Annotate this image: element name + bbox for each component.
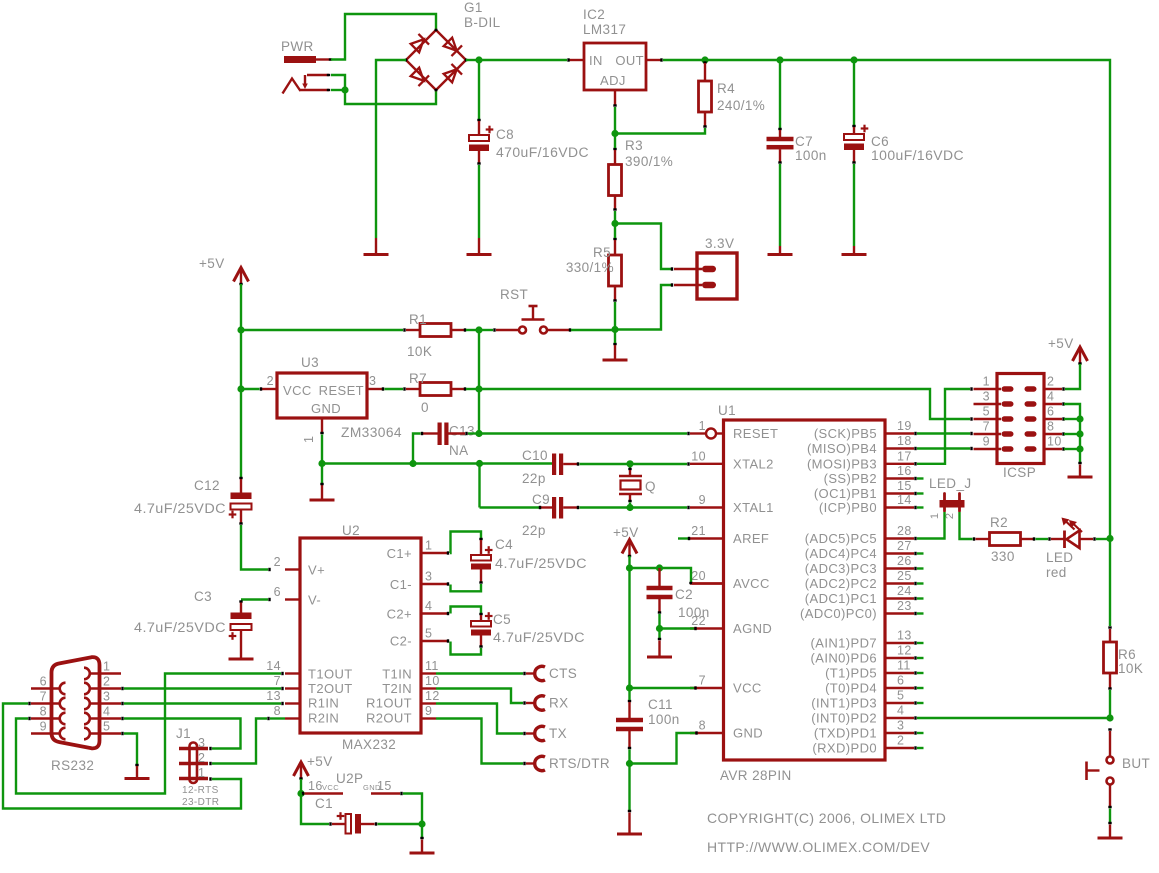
wire U3 RESET to R7 bbox=[385, 388, 404, 390]
svg-text:C13: C13 bbox=[449, 424, 475, 439]
capacitor C5 (polarized) plates bbox=[471, 612, 493, 635]
svg-text:C11: C11 bbox=[648, 697, 673, 712]
ICSP pin 1 number bbox=[983, 375, 990, 389]
wire T1IN to CTS port bbox=[436, 672, 523, 674]
DB9 pin 7 number bbox=[40, 690, 47, 704]
wire +5V to R1 bbox=[241, 329, 403, 331]
wire gnd node to U1 GND pin bbox=[630, 733, 696, 764]
ICSP pin 3 stub bbox=[1002, 401, 1014, 406]
capacitor C8 bottom lead bbox=[477, 151, 480, 164]
junction C7 top bbox=[776, 56, 783, 63]
svg-text:1: 1 bbox=[103, 660, 110, 674]
svg-text:10: 10 bbox=[1047, 435, 1062, 449]
junction crystal bottom / XTAL1 bbox=[626, 504, 633, 511]
pin tick C11 top bbox=[628, 700, 631, 702]
U1 pin 25 (ADC2)PC2 lead bbox=[885, 582, 916, 585]
svg-text:12: 12 bbox=[425, 689, 440, 703]
wire R4 bottom to ADJ node bbox=[617, 128, 705, 134]
svg-text:2: 2 bbox=[1047, 375, 1054, 389]
svg-text:(T1)PD5: (T1)PD5 bbox=[825, 666, 877, 681]
wire C13 left to ground rail bbox=[413, 434, 421, 464]
U2 left pin 8 lead bbox=[285, 717, 300, 719]
label C2 bbox=[675, 587, 693, 602]
capacitor C4 bottom lead bbox=[479, 570, 482, 583]
U1 AREF stub wire bbox=[678, 537, 689, 540]
svg-text:5: 5 bbox=[983, 405, 990, 419]
J1 pin 2 lead bbox=[179, 762, 208, 765]
svg-text:RX: RX bbox=[549, 696, 569, 711]
wire J1 pin2 to U2 R2IN bbox=[212, 719, 267, 764]
label C10 bbox=[522, 448, 548, 463]
resistor R1 body bbox=[420, 324, 451, 337]
svg-text:9: 9 bbox=[699, 493, 706, 507]
U2P pin16 number bbox=[308, 779, 339, 793]
svg-text:2: 2 bbox=[103, 675, 110, 689]
svg-text:5: 5 bbox=[425, 627, 432, 641]
label J1 bbox=[176, 726, 191, 741]
pin tick AVCC corner bbox=[689, 582, 692, 584]
jumper LED_J pin numbers bbox=[929, 513, 956, 519]
svg-text:(ADC0)PC0): (ADC0)PC0) bbox=[800, 606, 877, 621]
label R3 value bbox=[625, 154, 673, 169]
pin tick C5 top bbox=[479, 613, 482, 615]
U2P pin 15 GND lead bbox=[371, 792, 402, 795]
junction PWR- node bbox=[341, 86, 348, 93]
label +5V AVCC bbox=[613, 525, 639, 540]
wire PWR- to bridge AC2 bbox=[345, 90, 436, 104]
svg-text:VCC: VCC bbox=[283, 383, 312, 398]
svg-text:4.7uF/25VDC: 4.7uF/25VDC bbox=[495, 556, 587, 571]
svg-text:14: 14 bbox=[266, 659, 281, 673]
U2 pin 10 number bbox=[425, 674, 440, 688]
svg-text:C1-: C1- bbox=[390, 577, 412, 592]
svg-text:3: 3 bbox=[983, 390, 990, 404]
label C7 bbox=[795, 134, 813, 149]
svg-text:OUT: OUT bbox=[615, 53, 644, 68]
svg-text:Q: Q bbox=[645, 479, 656, 494]
capacitor C9 right lead bbox=[563, 506, 578, 509]
bridge corner pin marks bbox=[406, 30, 466, 90]
svg-text:MAX232: MAX232 bbox=[342, 737, 396, 752]
wire DB9 pin4 to J1 pin3 bbox=[124, 719, 241, 749]
ICSP pin 2 stub bbox=[1025, 386, 1037, 391]
ICSP pin 1 stub bbox=[1002, 386, 1014, 391]
IC IC2 LM317 body bbox=[584, 43, 646, 90]
RX port lead bbox=[526, 702, 536, 704]
pin tick R1 left bbox=[403, 328, 405, 331]
wire ADJ node to R3 bbox=[614, 134, 616, 149]
U1 XTAL2 pin lead bbox=[690, 463, 724, 465]
capacitor C5 bottom lead bbox=[479, 636, 482, 647]
wire PB5 SCK to ICSP pin7 bbox=[917, 432, 970, 434]
resistor R2 body bbox=[990, 533, 1021, 546]
ICSP pin 9 stub bbox=[1002, 446, 1014, 451]
U1 pin 13 (AIN1)PD7 lead bbox=[885, 641, 916, 644]
label C12 bbox=[194, 478, 220, 493]
label R6 bbox=[1118, 647, 1136, 662]
svg-text:100uF/16VDC: 100uF/16VDC bbox=[871, 148, 964, 163]
label U2P bbox=[336, 771, 363, 786]
svg-text:390/1%: 390/1% bbox=[625, 154, 673, 169]
pin tick C8 top bbox=[477, 119, 480, 121]
label C9 value bbox=[522, 523, 546, 538]
svg-text:U1: U1 bbox=[718, 403, 736, 418]
wire IC2 OUT to rail bbox=[663, 59, 703, 61]
wire pin16 to C1 bbox=[301, 794, 329, 825]
svg-text:C7: C7 bbox=[795, 134, 813, 149]
svg-text:15: 15 bbox=[897, 479, 912, 493]
resistor R2 left lead bbox=[976, 538, 990, 540]
junction C13/RESET node bbox=[475, 430, 482, 437]
svg-text:LED_J: LED_J bbox=[929, 476, 972, 491]
ICSP pin 4 number bbox=[1047, 390, 1054, 404]
capacitor C4 (polarized) plates bbox=[471, 546, 493, 569]
ICSP pin 3 number bbox=[983, 390, 990, 404]
junction AGND node bbox=[656, 625, 663, 632]
pin tick ICSP pin1 bbox=[970, 387, 972, 390]
pin tick J1 pin2 bbox=[209, 762, 211, 765]
junction LED / +5V rail bbox=[1106, 535, 1113, 542]
wire to C9 bbox=[480, 506, 540, 508]
U1 GND pin lead bbox=[690, 732, 724, 734]
svg-text:(ADC1)PC1: (ADC1)PC1 bbox=[805, 591, 877, 606]
U2 left pin 7 lead bbox=[285, 687, 300, 689]
DB9 contact pin 7 bbox=[60, 698, 66, 710]
pin tick C4 top bbox=[479, 538, 482, 540]
label LED red bbox=[1046, 565, 1067, 580]
U2 pin 12 number bbox=[425, 689, 440, 703]
junction R1 row bbox=[237, 326, 244, 333]
U1 AVCC pin lead horizontal bbox=[692, 582, 724, 584]
svg-text:7: 7 bbox=[699, 674, 706, 688]
svg-text:10K: 10K bbox=[407, 344, 432, 359]
wire +5V down to VCC row bbox=[628, 568, 630, 688]
label R3 bbox=[625, 138, 643, 153]
svg-text:RESET: RESET bbox=[319, 383, 364, 398]
U2 pin 8 number bbox=[274, 704, 281, 718]
capacitor C11 bottom lead bbox=[628, 731, 631, 748]
resistor R4 top lead bbox=[704, 63, 706, 81]
svg-text:4.7uF/25VDC: 4.7uF/25VDC bbox=[493, 630, 585, 645]
wire to C2 node bbox=[630, 567, 658, 569]
resistor R1 left lead bbox=[406, 329, 420, 331]
wire ICSP pin10 to chain bbox=[1064, 448, 1080, 450]
svg-text:3: 3 bbox=[198, 736, 205, 750]
svg-text:R5: R5 bbox=[593, 245, 611, 260]
crystal Q top lead bbox=[628, 464, 631, 476]
pin tick U1 XTAL2 bbox=[687, 462, 689, 465]
U1 pin 6 (T0)PD4 lead bbox=[885, 686, 916, 689]
wire into R2IN bbox=[270, 717, 285, 719]
label C4 value bbox=[495, 556, 587, 571]
svg-text:1: 1 bbox=[425, 539, 432, 553]
svg-text:(AIN1)PD7: (AIN1)PD7 bbox=[811, 636, 877, 651]
wire to U1 XTAL1 pin bbox=[630, 506, 687, 508]
label IC2 bbox=[583, 7, 605, 22]
svg-text:C2-: C2- bbox=[390, 634, 412, 649]
svg-text:XTAL2: XTAL2 bbox=[733, 456, 774, 471]
ICSP pin 6 stub bbox=[1025, 416, 1037, 421]
svg-text:T2IN: T2IN bbox=[382, 681, 412, 696]
wire pin1 to C4 plus bbox=[450, 532, 481, 554]
svg-text:21: 21 bbox=[691, 524, 706, 538]
svg-text:2: 2 bbox=[897, 734, 904, 748]
resistor R4 bottom lead bbox=[703, 112, 706, 127]
U2P pin 16 VCC lead bbox=[303, 792, 343, 795]
J1 pin 3 lead bbox=[179, 747, 208, 750]
label R4 value bbox=[717, 98, 765, 113]
capacitor C5 top lead bbox=[480, 615, 482, 621]
DB9 pin 6 number bbox=[40, 675, 47, 689]
wire R7 node to ICSP pin5 bbox=[479, 389, 970, 419]
resistor R5 body bbox=[609, 255, 622, 286]
wire R7 to node bbox=[466, 388, 479, 390]
svg-text:17: 17 bbox=[897, 449, 912, 463]
svg-text:R4: R4 bbox=[717, 81, 735, 96]
capacitor C11 100n bbox=[616, 718, 643, 732]
U1 pin 14 (ICP)PB0 lead bbox=[885, 506, 916, 509]
capacitor C13 right lead bbox=[449, 432, 467, 435]
DB9 contact pin 2 bbox=[84, 683, 90, 695]
svg-text:C2: C2 bbox=[675, 587, 693, 602]
DB9 pin 1 number bbox=[103, 660, 110, 674]
svg-text:(T0)PD4: (T0)PD4 bbox=[825, 681, 877, 696]
resistor R4 body bbox=[699, 81, 712, 112]
label Q bbox=[645, 479, 656, 494]
svg-text:6: 6 bbox=[1047, 405, 1054, 419]
pin tick C1 left bbox=[329, 822, 331, 825]
pin tick VCC bbox=[694, 686, 696, 689]
U2 pin 1 number bbox=[425, 539, 432, 553]
wire gnd node down bbox=[628, 764, 630, 811]
svg-text:330: 330 bbox=[991, 549, 1015, 564]
svg-text:(RXD)PD0: (RXD)PD0 bbox=[812, 741, 877, 756]
resistor R5 top lead bbox=[614, 240, 616, 255]
wire BUT node to U1 PD2 bbox=[917, 717, 1110, 719]
svg-text:1: 1 bbox=[198, 766, 205, 780]
stub wire pin 11 bbox=[917, 672, 924, 674]
U1 pin 18 (MISO)PB4 lead bbox=[885, 447, 916, 450]
label ICSP bbox=[1003, 465, 1036, 480]
U2 pin 9 number bbox=[425, 704, 432, 718]
label C13 bbox=[449, 424, 475, 439]
svg-text:14: 14 bbox=[897, 493, 912, 507]
ground under C11 bbox=[617, 813, 642, 835]
svg-text:(ADC3)PC3: (ADC3)PC3 bbox=[805, 561, 877, 576]
wire rail segment bbox=[780, 59, 852, 61]
ICSP pin 3 lead bbox=[974, 403, 1002, 405]
U1 pin 12 (AIN0)PD6 lead bbox=[885, 656, 916, 659]
connector ICSP body bbox=[997, 374, 1044, 464]
label C6 value bbox=[871, 148, 964, 163]
pin tick R7 left bbox=[403, 387, 405, 390]
svg-text:C9: C9 bbox=[532, 492, 550, 507]
ICSP pin 4 lead bbox=[1044, 403, 1062, 405]
svg-text:R7: R7 bbox=[409, 371, 427, 386]
wire +5V to U2P pin16 bbox=[300, 779, 302, 794]
capacitor C12 (polarized 4.7uF) plates bbox=[229, 493, 252, 519]
RTS/DTR port lead bbox=[526, 762, 536, 764]
label C4 bbox=[495, 537, 513, 552]
label R7 bbox=[409, 371, 427, 386]
svg-text:RS232: RS232 bbox=[51, 758, 94, 773]
stub wire pin 25 bbox=[917, 582, 924, 584]
svg-text:C4: C4 bbox=[495, 537, 513, 552]
svg-text:(MOSI)PB3: (MOSI)PB3 bbox=[807, 456, 877, 471]
resistor R6 bottom lead bbox=[1108, 673, 1111, 689]
junction RST node bbox=[475, 326, 482, 333]
label R5 bbox=[593, 245, 611, 260]
connector PWR pin 2/3 (barrel jack sleeve + switch) bbox=[283, 75, 331, 94]
wire C5 to pin5 bbox=[451, 642, 482, 655]
U2 right pin 10 lead bbox=[421, 687, 436, 689]
pin tick RTS/DTR bbox=[523, 762, 525, 765]
wire LED_J pin2 to R2 bbox=[960, 512, 973, 539]
label C7 value bbox=[795, 148, 827, 163]
ICSP pin 9 lead bbox=[974, 448, 1002, 450]
U1 pin 24 (ADC1)PC1 lead bbox=[885, 597, 916, 600]
svg-text:T1OUT: T1OUT bbox=[308, 667, 353, 682]
label 3.3V bbox=[705, 236, 734, 251]
pin tick U1 XTAL1 bbox=[687, 506, 689, 509]
label C12 value bbox=[134, 501, 226, 516]
pin tick DB9 pin7 bbox=[28, 702, 30, 705]
DB9 contact pin 1 bbox=[84, 668, 90, 680]
label C5 value bbox=[493, 630, 585, 645]
svg-text:T2OUT: T2OUT bbox=[308, 681, 353, 696]
U2 right pin 9 lead bbox=[421, 717, 436, 719]
svg-text:(OC1)PB1: (OC1)PB1 bbox=[814, 486, 877, 501]
DB9 contact pin 3 bbox=[84, 698, 90, 710]
pin tick U1 GND bbox=[695, 731, 697, 734]
ICSP pin 5 lead bbox=[974, 418, 1002, 420]
DB9 pin 3 lead bbox=[90, 702, 121, 704]
wire rail to C7 bbox=[779, 60, 781, 128]
ground under U2P bbox=[410, 840, 435, 854]
pin tick LED left bbox=[1048, 537, 1050, 540]
+5V supply symbol U2P bbox=[294, 762, 309, 779]
capacitor C10 plates bbox=[552, 454, 563, 476]
wire bridge minus to ground bbox=[376, 60, 406, 238]
capacitor C4 top lead bbox=[480, 540, 482, 555]
svg-text:T1IN: T1IN bbox=[382, 667, 412, 682]
wire to IC2 IN bbox=[479, 59, 567, 61]
svg-text:R1IN: R1IN bbox=[308, 696, 339, 711]
ICSP pin 9 number bbox=[983, 435, 990, 449]
junction U3 GND / rail bbox=[318, 460, 325, 467]
capacitor C10 right lead bbox=[563, 462, 578, 465]
svg-text:27: 27 bbox=[897, 539, 912, 553]
U1 XTAL1 pin lead bbox=[690, 506, 724, 508]
pushbutton BUT bbox=[1087, 731, 1114, 807]
J1 pin 1 lead bbox=[179, 777, 208, 780]
svg-text:ICSP: ICSP bbox=[1003, 465, 1036, 480]
svg-text:3: 3 bbox=[425, 570, 432, 584]
svg-text:U2P: U2P bbox=[336, 771, 363, 786]
label AVR 28PIN bbox=[720, 768, 792, 783]
resistor R2 right lead bbox=[1021, 537, 1035, 540]
U1 pin 28 (ADC5)PC5 lead bbox=[885, 537, 916, 540]
wire C3 to U2 V- bbox=[241, 598, 268, 600]
label LED_J bbox=[929, 476, 972, 491]
wire DB9 pin7 to J1 pin1 bbox=[3, 704, 241, 809]
svg-text:11: 11 bbox=[897, 659, 911, 673]
pin tick R4 top bbox=[703, 61, 706, 63]
pin tick R2 left bbox=[973, 537, 975, 540]
port arrow CTS bbox=[535, 666, 545, 680]
wire +5V rail to right edge down to LED bbox=[854, 60, 1110, 536]
wire C7 to ground bbox=[779, 164, 781, 246]
label C3 bbox=[194, 589, 212, 604]
stub wire pin 12 bbox=[917, 657, 924, 659]
svg-text:470uF/16VDC: 470uF/16VDC bbox=[496, 145, 589, 160]
ground under C2 bbox=[647, 641, 672, 658]
label R2 bbox=[990, 515, 1008, 530]
svg-text:15: 15 bbox=[377, 779, 392, 793]
pin tick ICSP pin2 bbox=[1062, 387, 1064, 390]
capacitor C2 bottom lead bbox=[658, 599, 661, 613]
ICSP pin 1 lead bbox=[974, 388, 1002, 390]
svg-text:R2IN: R2IN bbox=[308, 711, 339, 726]
crystal Q symbol bbox=[619, 476, 642, 494]
wire to AGND pin bbox=[660, 627, 695, 629]
label C3 value bbox=[134, 620, 226, 635]
wire C8 to ground bbox=[478, 165, 480, 238]
svg-text:4: 4 bbox=[897, 704, 904, 718]
U1 right pin names bbox=[800, 426, 877, 756]
svg-text:1: 1 bbox=[929, 513, 941, 519]
U2 pin 5 number bbox=[425, 627, 432, 641]
label U1 bbox=[718, 403, 736, 418]
ground under C7 bbox=[768, 246, 793, 255]
U2 left pin 2 lead bbox=[285, 568, 300, 570]
ground under C3 bbox=[229, 658, 254, 661]
pin tick RX bbox=[523, 701, 525, 704]
svg-text:(ADC4)PC4: (ADC4)PC4 bbox=[805, 546, 877, 561]
svg-text:4: 4 bbox=[1047, 390, 1054, 404]
svg-text:BUT: BUT bbox=[1122, 756, 1150, 771]
pin tick AGND bbox=[694, 627, 696, 630]
svg-text:AVR 28PIN: AVR 28PIN bbox=[720, 768, 792, 783]
svg-text:C1: C1 bbox=[315, 796, 333, 811]
DB9 pin 5 number bbox=[103, 720, 110, 734]
+5V supply symbol ICSP bbox=[1073, 347, 1088, 364]
svg-text:R1OUT: R1OUT bbox=[366, 696, 412, 711]
J1 pin 3 number bbox=[198, 736, 205, 750]
capacitor C13 left lead bbox=[422, 432, 438, 435]
rail-to-ground stub wire bbox=[320, 464, 323, 485]
wire R2 to LED bbox=[1036, 538, 1049, 540]
stub wire pin 14 bbox=[917, 506, 924, 508]
svg-text:28: 28 bbox=[897, 524, 912, 538]
capacitor C7 100n bbox=[767, 137, 794, 150]
U2P pin15 number bbox=[363, 779, 392, 793]
svg-text:PWR: PWR bbox=[281, 39, 314, 54]
svg-text:NA: NA bbox=[449, 443, 469, 458]
junction ADJ node bbox=[611, 130, 618, 137]
wire C4 to pin3 bbox=[451, 584, 482, 591]
svg-text:R6: R6 bbox=[1118, 647, 1136, 662]
U2 right pin 12 lead bbox=[421, 702, 436, 704]
DB9 pin 8 number bbox=[40, 705, 47, 719]
wire AGND gnd stub bbox=[658, 629, 661, 640]
U2 pin 3 number bbox=[425, 570, 432, 584]
capacitor C8 top lead bbox=[478, 121, 480, 135]
label U2 bbox=[342, 523, 360, 538]
DB9 pin 2 lead bbox=[90, 687, 121, 689]
U1 left pin numbers bbox=[691, 419, 706, 733]
svg-text:RTS/DTR: RTS/DTR bbox=[549, 756, 610, 771]
